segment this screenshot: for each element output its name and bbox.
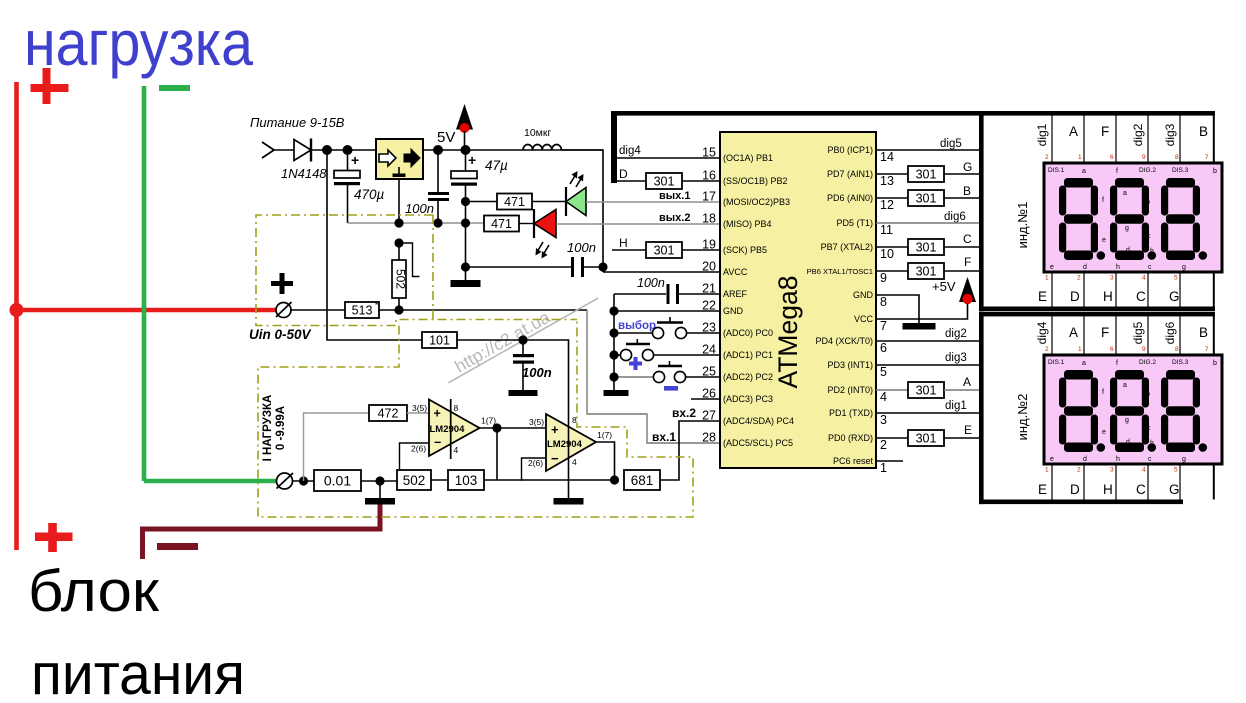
svg-text:PB0 (ICP1): PB0 (ICP1) xyxy=(827,145,873,155)
svg-text:C: C xyxy=(963,232,972,246)
svg-text:dig4: dig4 xyxy=(1035,321,1049,344)
wire terminal to R4 xyxy=(291,309,345,311)
svg-text:LM2904: LM2904 xyxy=(547,439,583,450)
resistor 301 (H) xyxy=(646,242,682,258)
wire green LED to PB3 (вых.1) xyxy=(586,201,720,203)
trimmer tap bracket xyxy=(399,243,420,277)
svg-text:(ADC5/SCL) PC5: (ADC5/SCL) PC5 xyxy=(723,438,793,448)
wire 301 to PB2 xyxy=(682,180,720,182)
HG2 bottom red pin numbers xyxy=(1045,467,1178,474)
node SB1 xyxy=(609,328,618,337)
feedback riser to R10 xyxy=(496,428,498,480)
svg-text:E: E xyxy=(1038,289,1047,304)
svg-text:c: c xyxy=(1148,456,1152,463)
svg-text:dig6: dig6 xyxy=(944,211,966,223)
wire 301 G to display xyxy=(944,173,979,175)
capacitor C1 470µ electrolytic xyxy=(334,150,360,223)
svg-text:301: 301 xyxy=(654,244,675,258)
svg-text:H: H xyxy=(1103,289,1113,304)
svg-text:G: G xyxy=(1169,289,1180,304)
svg-text:3(5): 3(5) xyxy=(412,403,427,413)
svg-text:F: F xyxy=(1101,124,1109,139)
svg-text:PD5 (T1): PD5 (T1) xyxy=(836,218,873,228)
svg-text:2(6): 2(6) xyxy=(411,444,426,454)
svg-text:47µ: 47µ xyxy=(485,158,508,173)
resistor R9 502 xyxy=(397,470,431,490)
svg-text:1(7): 1(7) xyxy=(597,430,612,440)
svg-text:h: h xyxy=(1150,248,1154,255)
svg-text:PB6 XTAL1/TOSC1: PB6 XTAL1/TOSC1 xyxy=(807,267,873,276)
node GND xyxy=(609,306,618,315)
svg-text:2: 2 xyxy=(1077,275,1081,282)
wire R2 to green LED xyxy=(532,201,566,203)
svg-text:681: 681 xyxy=(631,473,654,488)
LED VD3 red xyxy=(534,209,556,259)
wire PD2 to 301 A xyxy=(876,389,908,391)
svg-text:d: d xyxy=(1126,439,1130,446)
svg-text:b: b xyxy=(1213,168,1217,175)
wire 301 E to display xyxy=(944,437,979,439)
svg-text:І НАГРУЗКА: І НАГРУЗКА xyxy=(262,395,274,462)
svg-text:301: 301 xyxy=(916,241,937,255)
wire regulator output 5V rail xyxy=(423,149,603,151)
resistor 301 (C) xyxy=(908,239,944,255)
ground at C3 xyxy=(451,280,481,287)
svg-text:PD7 (AIN1): PD7 (AIN1) xyxy=(827,169,873,179)
svg-text:dig1: dig1 xyxy=(945,400,967,412)
U1 right pin numbers xyxy=(880,150,894,475)
wire PD4 dig2 xyxy=(876,340,979,342)
wire PC3 stub xyxy=(691,398,720,400)
svg-text:+: + xyxy=(468,152,476,168)
wire PC6 reset stub xyxy=(876,460,903,462)
HG1 bottom column labels xyxy=(1038,289,1180,304)
svg-text:13: 13 xyxy=(880,174,894,188)
load minus terminal (−, green) xyxy=(159,85,190,91)
node R5 top xyxy=(394,238,403,247)
svg-text:7: 7 xyxy=(1205,154,1209,161)
node divider xyxy=(394,305,403,314)
svg-text:27: 27 xyxy=(702,409,716,423)
svg-text:10мкг: 10мкг xyxy=(524,127,551,139)
svg-text:F: F xyxy=(964,255,971,269)
svg-text:3: 3 xyxy=(1110,275,1114,282)
wire 5V to AVCC drop xyxy=(562,150,604,272)
svg-text:D: D xyxy=(1070,289,1080,304)
svg-text:a: a xyxy=(1082,168,1086,175)
resistor 301 (F) xyxy=(908,263,944,279)
wire R11 to PC4 (вх.1) xyxy=(660,421,720,480)
display module HG2 frame xyxy=(979,312,1215,504)
wire PB6 to 301 F xyxy=(876,270,908,272)
svg-text:2: 2 xyxy=(880,438,887,452)
svg-text:b: b xyxy=(1146,199,1150,206)
svg-text:DIS.3: DIS.3 xyxy=(1172,359,1189,366)
svg-text:инд.№1: инд.№1 xyxy=(1015,202,1030,249)
op-amp U3B LM2904 xyxy=(546,414,596,498)
wire PB7 to 301 C xyxy=(876,246,908,248)
svg-text:выбор: выбор xyxy=(618,320,656,332)
node 5V at C2 filter xyxy=(433,145,443,155)
svg-text:301: 301 xyxy=(916,265,937,279)
svg-text:6: 6 xyxy=(1110,346,1114,353)
svg-text:C: C xyxy=(1136,289,1146,304)
minus label (blue) xyxy=(664,386,678,391)
svg-text:GND: GND xyxy=(723,306,744,316)
ground at shunt node xyxy=(379,481,381,498)
thick bus wire to display frame xyxy=(611,111,981,116)
svg-text:dig2: dig2 xyxy=(945,328,967,340)
svg-text:7: 7 xyxy=(1205,346,1209,353)
+5V arrow symbol at regulator xyxy=(456,104,473,150)
svg-text:DIS.3: DIS.3 xyxy=(1172,167,1189,174)
node at C5 xyxy=(518,335,527,344)
U1 right pin function labels xyxy=(807,145,874,466)
svg-text:dig3: dig3 xyxy=(945,352,967,364)
svg-text:dig1: dig1 xyxy=(1035,123,1049,146)
svg-text:−: − xyxy=(434,436,441,450)
svg-text:2(6): 2(6) xyxy=(528,458,543,468)
svg-text:PD3 (INT1): PD3 (INT1) xyxy=(827,360,873,370)
HG2 segment annotation letters xyxy=(1048,359,1217,463)
svg-text:301: 301 xyxy=(916,384,937,398)
U3A output wire xyxy=(480,427,547,429)
svg-text:0 -9.99А: 0 -9.99А xyxy=(275,406,287,450)
svg-text:VCC: VCC xyxy=(854,314,874,324)
svg-text:DIS.1: DIS.1 xyxy=(1048,167,1065,174)
svg-text:нагрузка: нагрузка xyxy=(24,7,253,79)
HG1 column separators xyxy=(1052,115,1180,307)
svg-text:PD4 (XCK/T0): PD4 (XCK/T0) xyxy=(815,336,873,346)
node red wire junction xyxy=(10,303,24,317)
Uin input terminal xyxy=(276,302,292,318)
button SB3 (minus) xyxy=(614,361,720,383)
wire PD3 dig3 xyxy=(876,364,979,366)
svg-text:470µ: 470µ xyxy=(354,187,385,202)
svg-text:+: + xyxy=(434,407,441,421)
svg-text:H: H xyxy=(619,236,628,250)
svg-text:DIS.1: DIS.1 xyxy=(1048,359,1065,366)
svg-text:+: + xyxy=(351,152,359,168)
svg-text:g: g xyxy=(1125,225,1129,232)
svg-text:a: a xyxy=(1123,382,1127,389)
HG1 right column edge xyxy=(1213,115,1215,307)
svg-text:9: 9 xyxy=(1142,346,1146,353)
svg-text:2: 2 xyxy=(1045,154,1049,161)
svg-text:8: 8 xyxy=(454,403,459,413)
U3A inverting input wire xyxy=(400,443,430,469)
resistor R4 513* xyxy=(345,301,379,318)
svg-text:5: 5 xyxy=(1174,467,1178,474)
svg-text:g: g xyxy=(1182,456,1186,463)
wire diode to regulator xyxy=(312,149,376,151)
wire GND pin 22 xyxy=(614,310,720,312)
wire R10 to feedback riser xyxy=(484,479,523,481)
wire feedback to 681 node xyxy=(522,479,615,481)
svg-text:инд.№2: инд.№2 xyxy=(1015,394,1030,441)
HG2 bottom column labels xyxy=(1038,482,1180,497)
svg-text:PD0 (RXD): PD0 (RXD) xyxy=(828,433,873,443)
svg-text:2: 2 xyxy=(1077,467,1081,474)
svg-text:18: 18 xyxy=(702,212,716,226)
svg-text:H: H xyxy=(1103,482,1113,497)
svg-text:101: 101 xyxy=(429,334,450,348)
wire red LED row xyxy=(482,222,484,224)
HG1 seven segment digits 8.8.8. xyxy=(1059,178,1207,260)
HG2 seven segment digits 8.8.8. xyxy=(1059,370,1207,452)
svg-text:1: 1 xyxy=(880,461,887,475)
capacitor C5 100n at op-amps xyxy=(513,340,534,390)
svg-text:301: 301 xyxy=(654,175,675,189)
svg-text:(MOSI/OC2)PB3: (MOSI/OC2)PB3 xyxy=(723,197,790,207)
U3B output wire xyxy=(596,442,615,480)
svg-text:dig5: dig5 xyxy=(1131,321,1145,344)
node rail at C3 line xyxy=(461,218,470,227)
ground at C5 xyxy=(509,390,538,396)
wire GND pin 8 to ground xyxy=(876,295,919,323)
svg-text:3(5): 3(5) xyxy=(529,417,544,427)
U3B inverting input wire xyxy=(522,458,547,480)
svg-text:f: f xyxy=(1116,168,1118,175)
svg-text:8: 8 xyxy=(880,295,887,309)
node U3B output xyxy=(610,475,619,484)
buttons common line xyxy=(613,294,615,390)
HG2 top column labels xyxy=(1069,325,1208,340)
svg-text:100n: 100n xyxy=(567,240,596,255)
resistor R7 0.01 shunt xyxy=(314,470,361,491)
display module HG1 frame xyxy=(979,111,1215,311)
wire input to diode xyxy=(274,149,294,151)
thick dig4 bus wire xyxy=(611,111,617,183)
svg-text:вх.2: вх.2 xyxy=(672,406,696,420)
svg-text:B: B xyxy=(963,184,971,198)
plus label (blue) xyxy=(629,357,642,370)
svg-text:(ADC0) PC0: (ADC0) PC0 xyxy=(723,328,773,338)
svg-text:100n: 100n xyxy=(405,201,434,216)
U1 left pin numbers xyxy=(702,146,716,445)
PSU plus terminal (+, red) xyxy=(35,523,73,552)
svg-text:(ADC4/SDA) PC4: (ADC4/SDA) PC4 xyxy=(723,416,794,426)
svg-text:4: 4 xyxy=(454,445,459,455)
node SB3 xyxy=(609,372,618,381)
svg-text:b: b xyxy=(1213,360,1217,367)
svg-text:(SCK) PB5: (SCK) PB5 xyxy=(723,245,767,255)
node C3 line at green LED row xyxy=(461,197,470,206)
HG1 top column labels xyxy=(1069,124,1208,139)
svg-text:17: 17 xyxy=(702,190,716,204)
svg-text:8: 8 xyxy=(1175,154,1179,161)
svg-text:6: 6 xyxy=(1110,154,1114,161)
wire PD1 dig1 xyxy=(876,412,979,414)
svg-text:GND: GND xyxy=(853,290,874,300)
svg-text:a: a xyxy=(1123,190,1127,197)
Uin plus sign xyxy=(271,273,293,294)
svg-text:AVCC: AVCC xyxy=(723,267,748,277)
svg-text:3: 3 xyxy=(880,413,887,427)
ground at U3B xyxy=(554,498,584,505)
svg-text:A: A xyxy=(1069,325,1078,340)
svg-text:h: h xyxy=(1116,264,1120,271)
HG2 right column edge xyxy=(1213,316,1215,500)
svg-text:d: d xyxy=(1126,247,1130,254)
ground at buttons line xyxy=(604,390,629,396)
U1 left pin function labels xyxy=(723,153,794,448)
diode D1 1N4148 xyxy=(294,139,311,162)
resistor 301 (B) xyxy=(908,190,944,206)
wire AREF to C6 xyxy=(614,293,666,295)
svg-text:вых.2: вых.2 xyxy=(659,212,690,224)
node C3 line at AVCC decoupling rail xyxy=(461,262,470,271)
node U3A output xyxy=(492,423,501,432)
svg-text:PC6 reset: PC6 reset xyxy=(833,456,874,466)
svg-text:11: 11 xyxy=(880,223,893,237)
svg-text:G: G xyxy=(963,160,972,174)
wire red LED to PB4 (вых.2) xyxy=(556,223,720,225)
svg-text:E: E xyxy=(1038,482,1047,497)
MCU U1 ATmega8 xyxy=(720,132,876,468)
HG2 top red pin numbers xyxy=(1045,346,1209,353)
HG1 top red pin numbers xyxy=(1045,154,1209,161)
svg-text:1: 1 xyxy=(1045,275,1049,282)
svg-text:*: * xyxy=(375,301,378,310)
wire R4 to divider node xyxy=(379,309,587,311)
svg-text:DIG.2: DIG.2 xyxy=(1139,359,1156,366)
svg-text:2: 2 xyxy=(1045,346,1049,353)
wire PD7 to 301 G xyxy=(876,173,908,175)
resistor 301 (D) xyxy=(646,173,682,189)
svg-text:472: 472 xyxy=(378,407,399,421)
svg-text:PD6 (AIN0): PD6 (AIN0) xyxy=(827,193,873,203)
svg-text:e: e xyxy=(1102,429,1106,436)
svg-text:B: B xyxy=(1199,124,1208,139)
svg-text:6: 6 xyxy=(880,341,887,355)
svg-text:Питание 9-15В: Питание 9-15В xyxy=(250,115,345,130)
AVCC decoupling rail xyxy=(466,266,572,268)
wire R7 to R9 junction xyxy=(361,480,397,482)
+5V arrow at VCC xyxy=(959,277,976,304)
svg-text:PD2 (INT0): PD2 (INT0) xyxy=(827,385,873,395)
wire 301 B to display xyxy=(944,197,979,199)
capacitor C2 100n xyxy=(428,150,449,223)
svg-text:8: 8 xyxy=(1175,346,1179,353)
svg-text:5V: 5V xyxy=(437,129,455,146)
svg-text:(ADC1) PC1: (ADC1) PC1 xyxy=(723,350,773,360)
node shunt output xyxy=(375,476,384,485)
svg-text:B: B xyxy=(1199,325,1208,340)
ground at pin 8 xyxy=(903,323,936,330)
power input connector arrow xyxy=(262,142,274,158)
svg-text:7: 7 xyxy=(880,319,887,333)
svg-text:C: C xyxy=(1136,482,1146,497)
svg-text:3: 3 xyxy=(1110,467,1114,474)
svg-text:f: f xyxy=(1102,389,1104,396)
svg-text:PB7 (XTAL2): PB7 (XTAL2) xyxy=(821,242,873,252)
node rail at regulator gnd xyxy=(394,218,403,227)
svg-text:f: f xyxy=(1116,360,1118,367)
resistor R2 471 (green LED) xyxy=(497,194,532,210)
wire dark red PSU negative xyxy=(143,504,381,559)
capacitor C6 100n at AREF xyxy=(667,284,721,304)
PSU minus terminal (−, dark red) xyxy=(157,543,198,550)
svg-text:F: F xyxy=(1101,325,1109,340)
wire tap to R8 472 (grey) xyxy=(304,413,370,481)
wire green LED row from 5V line xyxy=(466,201,498,203)
svg-text:4: 4 xyxy=(880,390,887,404)
wire R3 to red LED xyxy=(519,223,534,225)
svg-text:a: a xyxy=(1082,360,1086,367)
wire 301 C to display xyxy=(944,246,979,248)
svg-text:100n: 100n xyxy=(637,276,665,290)
HG1 bottom red pin numbers xyxy=(1045,275,1178,282)
svg-text:12: 12 xyxy=(880,198,894,212)
svg-text:dig5: dig5 xyxy=(940,138,962,150)
button SB2 (plus) xyxy=(614,339,720,361)
svg-text:блок: блок xyxy=(28,559,160,624)
dashed boundary box A (voltage divider) xyxy=(256,215,577,326)
svg-text:1(7): 1(7) xyxy=(481,416,496,426)
wire 301 A to display xyxy=(944,389,979,391)
svg-text:103: 103 xyxy=(455,473,478,488)
svg-text:питания: питания xyxy=(31,642,245,703)
svg-text:9: 9 xyxy=(880,271,887,285)
svg-text:Uin 0-50V: Uin 0-50V xyxy=(249,327,312,342)
resistor R5 502 vertical (trimmer) xyxy=(392,243,408,310)
svg-text:4: 4 xyxy=(572,457,577,467)
svg-text:dig3: dig3 xyxy=(1163,123,1177,146)
op-amp U3A LM2904 xyxy=(429,399,480,459)
wire regulator ground pin xyxy=(398,179,400,223)
wire divider to PC5 path (down at x=587) xyxy=(587,310,720,443)
wire R6 to op-amp supply xyxy=(457,340,569,414)
wire AVCC xyxy=(603,271,720,273)
svg-text:(SS/OC1B) PB2: (SS/OC1B) PB2 xyxy=(723,176,788,186)
capacitor C3 47µ electrolytic xyxy=(451,150,477,281)
HG2 pink LED display body xyxy=(1044,355,1222,464)
button SB1 (select) xyxy=(614,317,720,339)
svg-text:c: c xyxy=(1147,425,1151,432)
svg-text:e: e xyxy=(1050,264,1054,271)
resistor R3 471 (red LED) xyxy=(484,216,519,232)
svg-text:вых.1: вых.1 xyxy=(659,190,690,202)
capacitor C4 100n horizontal xyxy=(571,257,603,277)
wire PB2 to R 301 D xyxy=(617,180,646,182)
svg-text:28: 28 xyxy=(702,431,716,445)
wire green to shunt terminal (horizontal) xyxy=(144,479,277,484)
LED VD2 green xyxy=(566,171,586,216)
svg-text:1: 1 xyxy=(1078,154,1082,161)
svg-text:5: 5 xyxy=(880,365,887,379)
svg-text:1: 1 xyxy=(1078,346,1082,353)
svg-text:10: 10 xyxy=(880,247,894,261)
svg-text:(ADC2) PC2: (ADC2) PC2 xyxy=(723,372,773,382)
load plus terminal (+, red) xyxy=(31,68,69,104)
node SB2 xyxy=(609,350,618,359)
node 5V at C3 xyxy=(461,145,471,155)
svg-text:+5V: +5V xyxy=(932,279,956,294)
svg-text:b: b xyxy=(1146,391,1150,398)
HG2 column separators xyxy=(1052,316,1180,500)
svg-text:A: A xyxy=(1069,124,1078,139)
wire PD6 to 301 B xyxy=(876,197,908,199)
dashed boundary box B (current meter) xyxy=(258,320,693,518)
svg-text:471: 471 xyxy=(504,195,525,209)
resistor R11 681 xyxy=(624,470,660,490)
svg-text:502: 502 xyxy=(403,473,426,488)
svg-text:f: f xyxy=(1102,197,1104,204)
svg-text:301: 301 xyxy=(916,168,937,182)
watermark xyxy=(439,281,599,383)
svg-text:ATMega8: ATMega8 xyxy=(773,276,803,389)
